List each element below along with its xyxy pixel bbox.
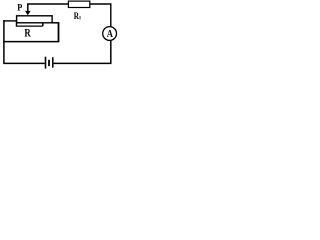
- ammeter A: [103, 27, 117, 41]
- wire rheostat bottom edge extension right: [52, 22, 59, 24]
- svg-text:0: 0: [79, 15, 82, 21]
- resistor R bottom edge / wire: [3, 41, 59, 43]
- wire top right: R0 to right corner: [90, 3, 112, 5]
- wire left edge extension down to R top: [16, 21, 18, 26]
- resistor R top edge: [16, 25, 43, 27]
- slider arrow of rheostat P: [25, 4, 31, 15]
- rheostat body (box): [17, 16, 53, 23]
- svg-text:R: R: [24, 27, 31, 39]
- wire right vertical upper: ammeter to top: [110, 4, 112, 26]
- wire bottom left to battery: [3, 62, 44, 64]
- battery plate long right: [52, 57, 54, 67]
- wire top from slider arrow to R0: [27, 3, 68, 5]
- resistor R0 (box): [68, 1, 89, 7]
- wire left terminal of rheostat: [3, 20, 17, 22]
- wire left vertical: [3, 20, 5, 63]
- battery plate long left: [45, 57, 47, 69]
- wire bottom right from battery: [54, 62, 112, 64]
- svg-text:A: A: [107, 28, 113, 40]
- wire right vertical from rheostat extension to bottom edge: [58, 23, 60, 42]
- wire tap from rheostat bottom edge down to R top edge: [42, 23, 44, 26]
- svg-text:P: P: [17, 2, 22, 13]
- battery plate short middle: [48, 60, 50, 66]
- wire right vertical lower: battery to ammeter: [110, 41, 112, 64]
